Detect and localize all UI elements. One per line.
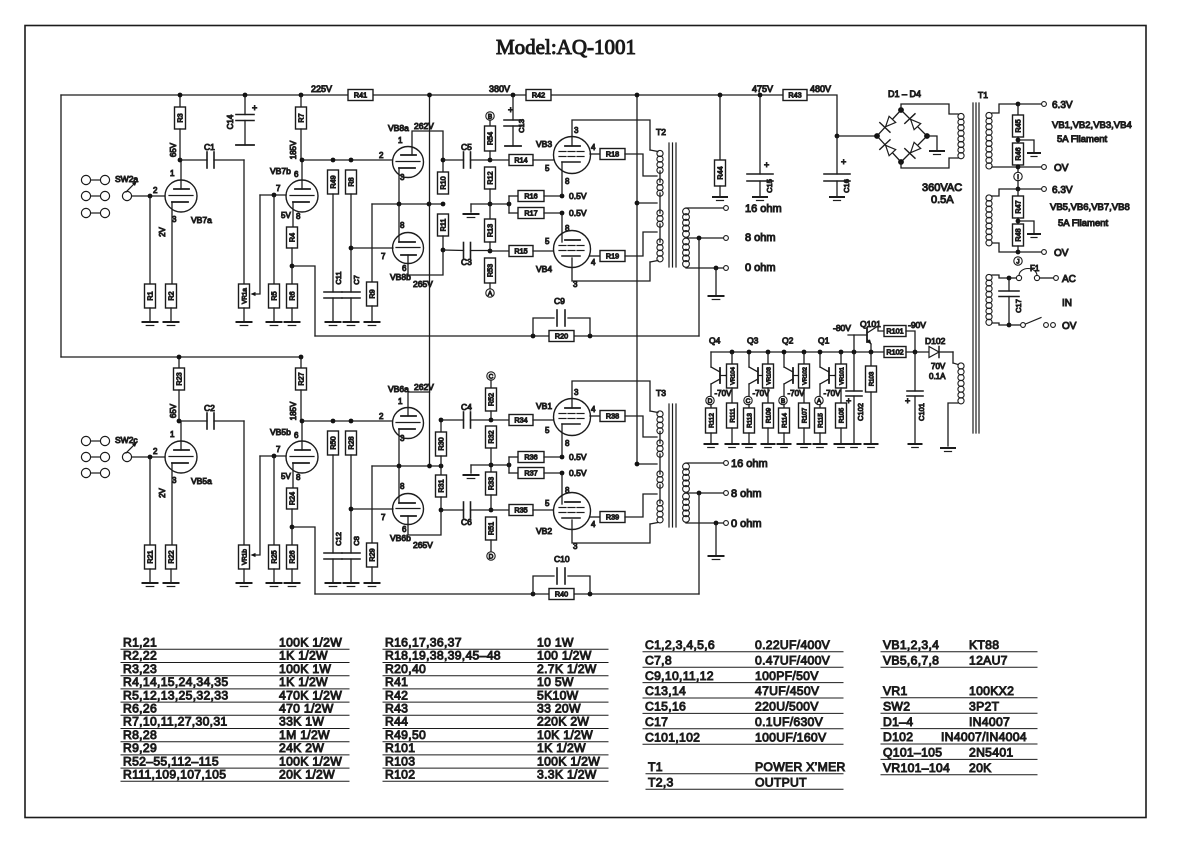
svg-text:3: 3 bbox=[400, 434, 405, 443]
svg-text:5: 5 bbox=[545, 164, 550, 173]
bias bus bbox=[711, 351, 884, 353]
svg-text:SW2c: SW2c bbox=[115, 435, 138, 445]
svg-text:5K10W: 5K10W bbox=[537, 688, 579, 702]
resistor R10 bbox=[438, 172, 449, 194]
svg-text:7: 7 bbox=[381, 513, 386, 522]
svg-text:16 ohm: 16 ohm bbox=[745, 203, 782, 215]
wire VB1 cathode bbox=[561, 424, 563, 457]
capacitor C5 bbox=[443, 159, 464, 161]
svg-text:65V: 65V bbox=[169, 142, 178, 157]
tube VB8b bbox=[393, 233, 424, 264]
node R12 R13 bbox=[488, 202, 493, 207]
resistor R101 bbox=[884, 326, 906, 337]
svg-text:VR1a: VR1a bbox=[242, 288, 249, 304]
svg-text:262V: 262V bbox=[414, 121, 434, 131]
svg-text:C15: C15 bbox=[765, 179, 774, 193]
svg-text:0.22UF/400V: 0.22UF/400V bbox=[755, 638, 831, 652]
svg-text:0.5V: 0.5V bbox=[569, 191, 587, 201]
wire VB7a cathode bbox=[171, 202, 173, 284]
svg-text:360VAC: 360VAC bbox=[922, 182, 962, 194]
T2 8 ohm tap bbox=[686, 237, 724, 239]
resistor R111 bbox=[727, 403, 738, 428]
wire bias winding bottom bbox=[948, 403, 958, 446]
capacitor C1 bbox=[180, 159, 207, 161]
wire lower 225V bus bbox=[61, 356, 301, 358]
svg-text:R13: R13 bbox=[486, 224, 495, 237]
svg-text:0 ohm: 0 ohm bbox=[731, 518, 762, 530]
svg-text:R37: R37 bbox=[524, 469, 537, 478]
switch SW2a bbox=[81, 175, 90, 184]
svg-text:6: 6 bbox=[294, 170, 299, 179]
svg-text:225V: 225V bbox=[311, 84, 332, 94]
tube VB8a bbox=[393, 147, 424, 178]
svg-text:1: 1 bbox=[170, 430, 175, 439]
svg-text:+: + bbox=[841, 157, 846, 167]
wire VB7b cathode bbox=[292, 202, 294, 227]
svg-text:C14: C14 bbox=[226, 114, 235, 129]
resistor R33 bbox=[486, 472, 497, 495]
T1 filament winding2 bbox=[986, 195, 992, 201]
svg-text:VR102: VR102 bbox=[803, 367, 809, 385]
wire lower grid line bbox=[302, 420, 392, 422]
ground R1 bbox=[149, 308, 151, 322]
svg-text:R103: R103 bbox=[870, 371, 876, 386]
svg-text:Q2: Q2 bbox=[782, 336, 794, 346]
svg-text:R48: R48 bbox=[1014, 228, 1023, 241]
svg-text:R2: R2 bbox=[167, 291, 176, 300]
wire SW2c to VB5a grid bbox=[132, 456, 165, 458]
resistor R36 bbox=[509, 456, 518, 458]
resistor R53 bbox=[485, 258, 496, 283]
svg-text:VB1,VB2,VB3,VB4: VB1,VB2,VB3,VB4 bbox=[1052, 120, 1132, 131]
svg-text:R39: R39 bbox=[606, 513, 619, 522]
T3 primary winding2 bbox=[657, 440, 663, 446]
svg-text:A: A bbox=[817, 398, 822, 405]
resistor R4 bbox=[287, 227, 298, 248]
svg-text:1: 1 bbox=[398, 136, 403, 145]
ground C16 bbox=[830, 196, 844, 198]
wire ac top bbox=[992, 275, 1007, 278]
capacitor C9 bbox=[533, 318, 554, 336]
svg-text:C4: C4 bbox=[461, 402, 472, 412]
svg-text:C15,16: C15,16 bbox=[645, 700, 686, 714]
svg-text:+: + bbox=[846, 396, 851, 406]
svg-text:B: B bbox=[781, 398, 785, 405]
svg-text:R3: R3 bbox=[176, 113, 185, 122]
svg-text:VB5,VB6,VB7,VB8: VB5,VB6,VB7,VB8 bbox=[1050, 202, 1130, 213]
svg-text:100 1/2W: 100 1/2W bbox=[537, 649, 592, 663]
resistor R49 bbox=[328, 170, 339, 194]
wire SRPP midpoint bbox=[372, 203, 443, 205]
svg-text:10 5W: 10 5W bbox=[537, 675, 574, 689]
ground R115 bbox=[814, 443, 827, 445]
svg-text:VB1,2,3,4: VB1,2,3,4 bbox=[883, 638, 939, 652]
resistor R47 bbox=[1017, 189, 1019, 196]
svg-text:VR1: VR1 bbox=[883, 684, 908, 698]
ground R112 bbox=[705, 443, 718, 445]
svg-text:R52: R52 bbox=[487, 393, 496, 406]
wire R39 to T3 tap bbox=[625, 494, 657, 517]
svg-text:C: C bbox=[746, 398, 751, 405]
svg-text:SW2: SW2 bbox=[883, 699, 910, 713]
bridge rectifier D1-D4 bbox=[877, 110, 927, 162]
resistor R28 bbox=[346, 431, 357, 455]
svg-text:5: 5 bbox=[545, 426, 550, 435]
svg-text:OV: OV bbox=[1062, 321, 1077, 332]
resistor R8 bbox=[346, 170, 357, 194]
resistor R107 bbox=[799, 403, 810, 428]
svg-text:2: 2 bbox=[379, 151, 384, 160]
wire R31 to VB6b plate bbox=[408, 510, 441, 535]
T3 8 ohm tap bbox=[686, 492, 724, 494]
svg-text:Q1: Q1 bbox=[818, 336, 830, 346]
transistor Q4 bbox=[710, 352, 712, 367]
resistor R12 bbox=[485, 167, 496, 189]
wire VB6b cathode bbox=[398, 466, 400, 503]
node R24 R26 junction bbox=[290, 525, 295, 530]
wire VB1 plate to T3 bbox=[572, 381, 650, 411]
ground R26 bbox=[291, 569, 293, 583]
tube VB2 bbox=[554, 493, 591, 530]
svg-text:4: 4 bbox=[591, 258, 596, 267]
node VB4 top bbox=[560, 211, 565, 216]
wire feedback to cathode lower bbox=[292, 527, 315, 594]
T3 primary connectors bbox=[659, 432, 661, 444]
wire VB6a plate elbow bbox=[408, 392, 430, 416]
capacitor C101 bbox=[914, 352, 916, 391]
ground C102 bbox=[848, 443, 861, 445]
svg-text:10K 1/2W: 10K 1/2W bbox=[537, 728, 593, 742]
capacitor C6 bbox=[441, 509, 464, 511]
wire VB8b cathode bbox=[398, 204, 400, 242]
svg-text:IN4007/IN4004: IN4007/IN4004 bbox=[941, 730, 1027, 744]
emitter wire Q3 bbox=[758, 375, 763, 377]
ground R109 bbox=[762, 443, 775, 445]
wire bus R41 to R42 bbox=[373, 94, 526, 96]
svg-text:R101: R101 bbox=[385, 741, 415, 755]
node C5 tap bbox=[441, 158, 446, 163]
svg-text:VB2: VB2 bbox=[536, 526, 552, 536]
svg-text:65V: 65V bbox=[169, 403, 178, 418]
transistor Q3 bbox=[748, 352, 750, 367]
wire bus R42 to R43 bbox=[551, 94, 783, 96]
resistor R11 bbox=[438, 214, 449, 236]
emitter wire Q1 bbox=[829, 375, 836, 377]
svg-text:VB1: VB1 bbox=[536, 401, 552, 411]
tube VB7a bbox=[165, 180, 197, 212]
wire VB3 cathode bbox=[561, 162, 563, 196]
resistor R38 bbox=[590, 415, 600, 417]
svg-text:R18: R18 bbox=[606, 150, 619, 159]
T1 primary winding bbox=[958, 113, 964, 119]
resistor R22 bbox=[166, 545, 177, 569]
wire R19 to T2 tap bbox=[625, 232, 657, 256]
resistor R9 bbox=[371, 204, 373, 282]
svg-text:8: 8 bbox=[296, 473, 301, 482]
svg-text:R27: R27 bbox=[297, 372, 306, 385]
wire VB5b cathode bbox=[292, 463, 294, 488]
svg-text:1K 1/2W: 1K 1/2W bbox=[537, 741, 586, 755]
svg-text:VB8a: VB8a bbox=[388, 123, 409, 133]
svg-text:12AU7: 12AU7 bbox=[969, 653, 1008, 667]
resistor R50 bbox=[328, 431, 339, 455]
resistor R115 bbox=[819, 405, 821, 408]
svg-text:2V: 2V bbox=[158, 226, 167, 236]
wire feedback run upper bbox=[315, 335, 699, 337]
svg-text:AC: AC bbox=[1062, 274, 1076, 285]
svg-text:8: 8 bbox=[296, 212, 301, 221]
svg-text:R17: R17 bbox=[524, 209, 537, 218]
T2 16 ohm tap bbox=[686, 207, 724, 209]
wire filament2 top bbox=[992, 189, 1016, 196]
svg-text:0.5V: 0.5V bbox=[569, 468, 587, 478]
wire filament1 top bbox=[992, 104, 1016, 113]
svg-text:A: A bbox=[488, 290, 493, 297]
VR1b wiper bbox=[253, 456, 260, 555]
svg-text:R102: R102 bbox=[886, 348, 903, 357]
node B bbox=[486, 112, 494, 120]
capacitor C14 bbox=[243, 93, 248, 98]
capacitor C2 bbox=[179, 420, 207, 422]
svg-text:VB5,6,7,8: VB5,6,7,8 bbox=[883, 653, 939, 667]
wire SW2a to VB7a grid bbox=[132, 195, 165, 197]
svg-text:D: D bbox=[489, 553, 494, 560]
svg-text:KT88: KT88 bbox=[969, 638, 999, 652]
node D lower bbox=[487, 552, 495, 560]
svg-text:C102: C102 bbox=[856, 403, 865, 421]
wire VB7b plate bbox=[301, 160, 303, 189]
svg-text:Model:AQ-1001: Model:AQ-1001 bbox=[496, 35, 636, 59]
potentiometer VR1a bbox=[243, 160, 245, 284]
tube VB7b bbox=[286, 180, 318, 212]
capacitor C15 bbox=[758, 93, 763, 98]
svg-text:C17: C17 bbox=[1014, 299, 1023, 313]
svg-text:D: D bbox=[708, 398, 713, 405]
T3 secondary windingB bbox=[683, 493, 690, 500]
svg-text:R40: R40 bbox=[555, 590, 568, 599]
svg-text:R31: R31 bbox=[437, 479, 446, 492]
ground R2 bbox=[170, 308, 172, 322]
svg-text:C9: C9 bbox=[554, 296, 565, 306]
node VB2 top bbox=[560, 471, 565, 476]
svg-text:R109: R109 bbox=[766, 407, 773, 423]
svg-text:262V: 262V bbox=[414, 382, 434, 392]
svg-text:8: 8 bbox=[565, 439, 570, 448]
svg-text:3: 3 bbox=[574, 388, 579, 397]
svg-text:Q3: Q3 bbox=[747, 336, 759, 346]
node C upper bbox=[487, 372, 495, 380]
svg-text:C9,10,11,12: C9,10,11,12 bbox=[645, 669, 714, 683]
svg-text:D1 – D4: D1 – D4 bbox=[888, 89, 921, 99]
resistor R25 bbox=[273, 456, 275, 545]
capacitor C12 bbox=[324, 552, 342, 554]
wire bridge to T1 primary bbox=[901, 104, 958, 114]
svg-text:8: 8 bbox=[565, 224, 570, 233]
wire feedback to cathode bbox=[292, 266, 315, 336]
svg-text:IN: IN bbox=[1062, 298, 1072, 309]
potentiometer VR103 bbox=[766, 350, 771, 355]
ground R9 bbox=[365, 321, 380, 323]
node I bbox=[1014, 172, 1022, 180]
ground bracket f1 bbox=[1018, 140, 1034, 152]
svg-text:VR101–104: VR101–104 bbox=[883, 761, 950, 775]
svg-text:100UF/160V: 100UF/160V bbox=[755, 730, 827, 744]
resistor R102 bbox=[884, 347, 906, 358]
diode D102 bbox=[929, 347, 939, 358]
ground R114 bbox=[778, 443, 791, 445]
ground C101 bbox=[909, 443, 922, 445]
node C4 tap bbox=[439, 418, 444, 423]
svg-text:R53: R53 bbox=[486, 264, 495, 277]
svg-text:33 20W: 33 20W bbox=[537, 702, 581, 716]
tube VB6a bbox=[393, 408, 424, 439]
svg-text:R32: R32 bbox=[487, 430, 496, 443]
svg-text:R23: R23 bbox=[175, 372, 184, 385]
resistor R54 bbox=[489, 120, 491, 126]
svg-text:0.1A: 0.1A bbox=[929, 372, 946, 381]
capacitor C17 bbox=[1008, 278, 1010, 291]
resistor R18 bbox=[590, 153, 600, 155]
wire I to J section bbox=[1017, 181, 1019, 189]
svg-text:R107: R107 bbox=[802, 407, 809, 423]
svg-text:VB4: VB4 bbox=[536, 264, 552, 274]
svg-text:R54: R54 bbox=[486, 132, 495, 145]
svg-text:R34: R34 bbox=[514, 416, 527, 425]
svg-text:20K 1/2W: 20K 1/2W bbox=[279, 768, 335, 782]
wire VB7a plate bbox=[180, 160, 182, 189]
wire T3 feedback bbox=[698, 493, 700, 594]
resistor R24 bbox=[287, 488, 298, 509]
svg-text:VR104: VR104 bbox=[731, 366, 737, 385]
svg-text:F1: F1 bbox=[1030, 264, 1040, 273]
T2 primary winding1 bbox=[657, 150, 663, 156]
svg-text:-80V: -80V bbox=[833, 323, 851, 333]
svg-text:R3,23: R3,23 bbox=[123, 662, 157, 676]
svg-text:+: + bbox=[252, 103, 257, 113]
svg-text:IN4007: IN4007 bbox=[969, 715, 1010, 729]
svg-text:C3: C3 bbox=[461, 257, 472, 267]
svg-text:20K: 20K bbox=[969, 761, 992, 775]
svg-text:C2: C2 bbox=[204, 403, 215, 413]
resistor R45 bbox=[1017, 104, 1019, 115]
ground T2 0 ohm bbox=[715, 268, 717, 295]
svg-text:1: 1 bbox=[398, 397, 403, 406]
svg-text:R20: R20 bbox=[555, 332, 568, 341]
resistor R17 bbox=[509, 212, 518, 214]
svg-text:4: 4 bbox=[591, 405, 596, 414]
svg-text:2N5401: 2N5401 bbox=[969, 746, 1014, 760]
resistor R26 bbox=[291, 527, 293, 545]
T3 16 ohm tap bbox=[686, 462, 724, 464]
svg-text:47UF/450V: 47UF/450V bbox=[755, 684, 820, 698]
potentiometer VR1b bbox=[243, 421, 245, 545]
svg-text:R24: R24 bbox=[288, 492, 297, 505]
svg-text:3: 3 bbox=[172, 215, 177, 224]
svg-text:R25: R25 bbox=[270, 550, 279, 563]
wire left supply vertical bbox=[60, 95, 62, 357]
T2 primary winding4 bbox=[657, 239, 663, 245]
resistor R15 bbox=[490, 250, 509, 252]
svg-text:T2: T2 bbox=[656, 127, 666, 137]
svg-text:T1: T1 bbox=[648, 760, 663, 774]
resistor R44 bbox=[718, 93, 723, 98]
wire VB2 plate to T3 bbox=[572, 520, 650, 543]
svg-text:C7: C7 bbox=[352, 275, 361, 285]
ground R21 bbox=[149, 569, 151, 583]
svg-text:R26: R26 bbox=[288, 550, 297, 563]
svg-text:480V: 480V bbox=[810, 84, 831, 94]
svg-text:VB5a: VB5a bbox=[191, 476, 212, 486]
tube VB5a bbox=[165, 441, 197, 473]
svg-text:380V: 380V bbox=[489, 84, 510, 94]
svg-text:0 ohm: 0 ohm bbox=[745, 262, 776, 274]
resistor R13 bbox=[485, 219, 496, 242]
svg-text:100K 1/2W: 100K 1/2W bbox=[537, 754, 600, 768]
svg-text:2V: 2V bbox=[158, 487, 167, 497]
svg-text:16 ohm: 16 ohm bbox=[731, 458, 768, 470]
wire B+ to center taps bbox=[636, 95, 638, 464]
svg-text:475V: 475V bbox=[752, 84, 773, 94]
svg-text:7: 7 bbox=[276, 184, 281, 193]
svg-text:7: 7 bbox=[276, 445, 281, 454]
svg-text:R6,26: R6,26 bbox=[123, 702, 157, 716]
resistor R52 bbox=[490, 380, 492, 388]
svg-text:R1: R1 bbox=[146, 291, 155, 300]
svg-text:5A Filament: 5A Filament bbox=[1057, 134, 1108, 145]
svg-text:+: + bbox=[764, 160, 769, 170]
capacitor C102 bbox=[852, 350, 857, 355]
svg-text:C12: C12 bbox=[334, 532, 343, 546]
T2 secondary windingB bbox=[683, 238, 690, 245]
wire 185V grid line bbox=[302, 159, 392, 161]
wire C16 to bridge bbox=[837, 135, 877, 137]
svg-text:220U/500V: 220U/500V bbox=[755, 700, 819, 714]
svg-text:-70V: -70V bbox=[824, 389, 842, 398]
resistor R46 bbox=[1013, 143, 1024, 165]
svg-text:POWER X’MER: POWER X’MER bbox=[755, 760, 846, 774]
svg-text:VB7b: VB7b bbox=[270, 166, 291, 176]
svg-text:0.5V: 0.5V bbox=[569, 452, 587, 462]
svg-text:3: 3 bbox=[172, 476, 177, 485]
svg-text:24K 2W: 24K 2W bbox=[279, 741, 324, 755]
potentiometer VR101 bbox=[839, 350, 844, 355]
svg-text:0.5A: 0.5A bbox=[931, 194, 954, 206]
node bridge bottom bbox=[898, 159, 904, 165]
svg-text:6.3V: 6.3V bbox=[1052, 100, 1073, 111]
T2 secondary windingA bbox=[683, 208, 690, 215]
node bridge left bbox=[874, 133, 880, 139]
node C3 tap bbox=[441, 248, 446, 253]
svg-text:R7,10,11,27,30,31: R7,10,11,27,30,31 bbox=[123, 715, 228, 729]
svg-text:R52–55,112–115: R52–55,112–115 bbox=[123, 754, 219, 768]
svg-text:100KX2: 100KX2 bbox=[969, 684, 1014, 698]
wire VB3 plate to T2 bbox=[572, 120, 650, 150]
svg-text:R8,28: R8,28 bbox=[123, 728, 157, 742]
svg-text:R112: R112 bbox=[709, 413, 716, 428]
svg-text:R21: R21 bbox=[146, 550, 155, 563]
wire to R16 R17 bracket bbox=[490, 203, 509, 205]
wire R11 to VB8b plate bbox=[408, 250, 443, 275]
svg-text:R44: R44 bbox=[385, 715, 408, 729]
resistor R16 bbox=[509, 195, 518, 197]
svg-text:VB6b: VB6b bbox=[390, 533, 411, 543]
wire 380V feed vertical bbox=[429, 95, 431, 392]
svg-text:185V: 185V bbox=[289, 140, 298, 159]
svg-text:C17: C17 bbox=[645, 715, 668, 729]
ground R29 bbox=[365, 582, 380, 584]
wire VB5b plate bbox=[301, 421, 303, 450]
resistor R114 bbox=[783, 405, 785, 408]
